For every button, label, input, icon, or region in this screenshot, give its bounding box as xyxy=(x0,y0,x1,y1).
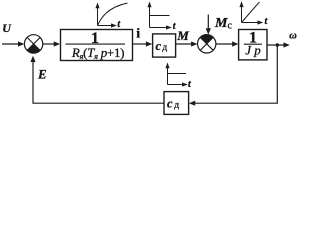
graph: exponential response above W1 xyxy=(98,3,128,26)
graph: ramp response above W2 xyxy=(242,2,260,23)
arrowhead feedback up into circle1 bottom xyxy=(30,56,35,62)
arrowhead into circle1 xyxy=(18,41,24,46)
svg-text:ω: ω xyxy=(289,30,297,41)
arrowhead feedback into block CD2 right side xyxy=(189,101,195,106)
block W2: 1/(Jp) xyxy=(239,29,267,60)
arrowhead output omega xyxy=(284,42,290,47)
wire input U xyxy=(2,43,19,45)
svg-text:с: с xyxy=(167,97,173,111)
wire feedback down from output node xyxy=(194,45,277,103)
wire output omega xyxy=(267,44,285,46)
block W1: 1/(Rya(Tya p+1)) xyxy=(61,30,133,62)
wire Mc input xyxy=(207,15,209,30)
wire block W1 to block CD1 xyxy=(133,43,147,45)
wire circle1 to block W1 xyxy=(43,43,55,45)
arrowhead Mc into S2 top xyxy=(206,28,211,34)
summing junction S2 xyxy=(198,35,216,53)
svg-text:M: M xyxy=(176,28,189,43)
arrowhead into block CD1 xyxy=(146,41,152,46)
summing junction S1 xyxy=(24,35,42,53)
junction node dot on output xyxy=(276,43,280,47)
svg-text:с: с xyxy=(156,39,162,53)
svg-text:д: д xyxy=(174,101,179,111)
graph: step response above CD1 xyxy=(150,7,170,28)
block CD2: c_d (lower feedback) xyxy=(164,92,189,115)
arrowhead into block W2 xyxy=(232,41,238,46)
svg-text:E: E xyxy=(37,67,47,82)
svg-text:U: U xyxy=(2,21,12,35)
wire summing junction S2 to block W2 xyxy=(216,43,234,45)
graph: step response above CD2 xyxy=(168,68,187,85)
arrowhead into summing junction S2 xyxy=(191,41,197,46)
wire feedback bottom-left and up to circle1 xyxy=(33,62,164,104)
svg-text:д: д xyxy=(162,43,167,53)
block CD1: c_d (upper) xyxy=(153,34,176,57)
svg-text:Rя(Tя p+1): Rя(Tя p+1) xyxy=(71,45,124,61)
wire block CD1 to summing junction S2 xyxy=(176,43,193,45)
svg-text:i: i xyxy=(136,26,140,41)
arrowhead into block W1 xyxy=(54,41,60,46)
svg-text:J p: J p xyxy=(245,43,261,58)
